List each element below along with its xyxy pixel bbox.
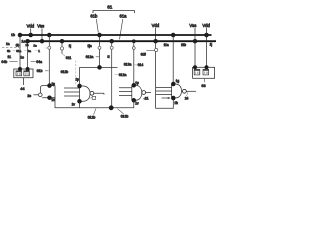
- node dot lower bus x42: [40, 39, 45, 44]
- wire drop x173.2 to gate G4: [172, 35, 174, 84]
- svg-text:-21: -21: [144, 97, 149, 101]
- node dot block62 left: [18, 67, 22, 71]
- tiny dash row2: [13, 50, 38, 52]
- node dot block63 left: [193, 65, 197, 69]
- gate G1 bubble: [39, 93, 43, 97]
- svg-text:613b: 613b: [121, 115, 129, 119]
- svg-text:1g: 1g: [176, 79, 180, 83]
- node dot lower bus x195: [193, 39, 198, 44]
- node dot upper bus x20: [18, 33, 23, 38]
- dashed boundary left: [2, 47, 20, 49]
- wire stub below block 62: [23, 78, 25, 85]
- wire drop x155.6 long to loop: [156, 41, 174, 108]
- contact circle on x99.5: [98, 46, 101, 49]
- gate G3 output: [146, 92, 151, 94]
- gate G4 inputs: [156, 88, 172, 95]
- svg-text:615: 615: [141, 52, 147, 56]
- gate G3 body: [132, 85, 142, 100]
- svg-text:Vdd: Vdd: [152, 23, 160, 28]
- gate G2 inputs: [64, 88, 80, 96]
- wire drop x49.3 to gate G1: [48, 35, 50, 86]
- bracket for 61: [93, 11, 135, 13]
- gate G1 top dot: [47, 83, 52, 88]
- leader 64a: [31, 61, 36, 63]
- leader 612b bottom: [94, 109, 97, 115]
- node dot upper bus x30.7: [28, 33, 33, 38]
- block 62 inner cell left stripe: [16, 71, 22, 72]
- arrowhead inside G4 loop: [168, 97, 170, 99]
- gate G3 inputs: [119, 88, 132, 96]
- gate G2 bottom dot: [77, 99, 82, 104]
- svg-text:1v: 1v: [72, 103, 76, 107]
- wire G2 bottom to rail: [79, 101, 81, 108]
- gate G1 body (mirrored): [40, 86, 55, 98]
- svg-text:1j: 1j: [69, 44, 72, 48]
- block 63 inner cell left marks: [196, 72, 199, 74]
- wire drop x195 right block: [194, 28, 196, 67]
- leader 614: [147, 50, 155, 52]
- svg-text:61b: 61b: [37, 69, 43, 73]
- svg-text:24: 24: [185, 96, 189, 100]
- leader 63: [204, 79, 206, 83]
- svg-text:(1): (1): [16, 43, 20, 47]
- leader 61b block: [45, 70, 49, 72]
- block 63 outline: [193, 67, 215, 78]
- svg-text:612a: 612a: [119, 73, 127, 77]
- leader 611: [62, 54, 65, 57]
- block 62 inner cell right stripe: [24, 71, 30, 72]
- svg-text:1p: 1p: [75, 77, 79, 81]
- dashed cell boundary x75.8: [75, 61, 77, 86]
- tick Vss left to lower bus: [41, 28, 43, 40]
- node dot upper bus x206.5: [204, 33, 209, 38]
- gate G4 top dot: [171, 82, 176, 87]
- leader 614 dash: [134, 64, 137, 66]
- block 63 inner cell left: [194, 69, 200, 75]
- svg-text:612b: 612b: [88, 115, 96, 119]
- node dot lower bus x62: [60, 39, 65, 44]
- svg-text:61: 61: [107, 4, 113, 9]
- svg-text:1a: 1a: [33, 43, 37, 47]
- svg-text:1c: 1c: [20, 56, 24, 60]
- svg-text:614: 614: [138, 63, 144, 67]
- node dot upper bus x173.2: [171, 33, 176, 38]
- svg-text:44: 44: [20, 86, 25, 91]
- bus 61a lower: [28, 40, 216, 42]
- svg-text:Vss: Vss: [37, 24, 44, 29]
- gate G2 output: [94, 93, 104, 94]
- wire drop x111.7 to bottom rail: [111, 41, 113, 108]
- svg-text:1b: 1b: [11, 33, 15, 37]
- block 62 inner cell right marks: [25, 73, 28, 75]
- gate G2 top dot: [77, 84, 82, 89]
- tiny dash left of x49 contact: [45, 47, 48, 49]
- svg-text:11: 11: [7, 55, 11, 59]
- contact circle on x49.3: [48, 46, 51, 49]
- leader 64b: [9, 61, 17, 63]
- svg-text:2e: 2e: [27, 94, 31, 98]
- svg-text:1ja: 1ja: [87, 44, 91, 48]
- svg-text:1p: 1p: [135, 81, 139, 85]
- wire drop x206.5 right block: [206, 28, 208, 67]
- leader from 61a to lower bus: [120, 19, 123, 39]
- svg-text:61a: 61a: [120, 14, 128, 19]
- wire bottom rail: [50, 98, 134, 108]
- svg-text:63: 63: [201, 84, 205, 88]
- gate G3 bottom dot: [132, 98, 137, 103]
- squiggle leader G2 square: [90, 97, 92, 100]
- svg-text:6b: 6b: [7, 49, 11, 53]
- wire G3 bottom to rail: [133, 100, 135, 108]
- contact circle on x62: [60, 47, 63, 50]
- svg-text:1j: 1j: [210, 43, 213, 47]
- svg-text:61a: 61a: [16, 49, 21, 53]
- node dot lower bus x133.8: [132, 39, 136, 43]
- block 62 inner cell left: [16, 71, 22, 76]
- gate G4 bubble: [183, 89, 187, 93]
- contact circle on x155.6: [155, 48, 158, 51]
- node dot lower bus x155.6: [153, 39, 158, 44]
- node dot lower bus x27.6: [25, 39, 30, 44]
- svg-text:64b: 64b: [1, 60, 7, 64]
- leader 613b bottom: [118, 109, 124, 114]
- bus 61b upper: [20, 34, 212, 36]
- arrow inside G4 loop: [162, 97, 171, 99]
- gate G4 body: [172, 84, 182, 98]
- block 62 inner cell left marks: [17, 73, 20, 75]
- svg-text:11a: 11a: [164, 43, 169, 47]
- svg-text:611: 611: [66, 56, 72, 60]
- contact square G2: [92, 96, 95, 99]
- gate G3 bubble: [142, 91, 146, 95]
- wire drop x99.5 with jog to gate G2: [80, 35, 118, 86]
- gate G1 bottom dot: [47, 95, 52, 100]
- node dot lower bus x111.7: [109, 39, 114, 44]
- gate G3 top dot: [132, 83, 137, 88]
- svg-text:1j: 1j: [107, 54, 110, 58]
- node dot upper bus x99.5: [97, 33, 102, 38]
- block 63 inner cell left stripe: [194, 69, 200, 70]
- wire left drop x20: [19, 35, 21, 69]
- block 62 inner cell right: [24, 71, 30, 76]
- gate G4 bottom dot: [171, 96, 176, 101]
- svg-text:Vdd: Vdd: [202, 23, 210, 28]
- contact circle on x111.7: [110, 46, 113, 49]
- leader from 61b to upper bus: [96, 19, 98, 33]
- svg-text:11b: 11b: [181, 43, 186, 47]
- tick Vdd middle to lower bus: [155, 28, 157, 41]
- node dot bottom rail: [109, 105, 114, 110]
- gate G2 bubble: [90, 91, 94, 95]
- svg-text:61b: 61b: [90, 14, 98, 19]
- node dot corner 99.5,69: [97, 65, 102, 70]
- gate G1 output lead: [33, 94, 38, 96]
- svg-text:1: 1: [38, 49, 40, 53]
- svg-text:1h: 1h: [174, 101, 178, 105]
- leader 612a second: [114, 73, 118, 75]
- svg-text:6a: 6a: [28, 49, 32, 53]
- svg-text:1v: 1v: [51, 98, 55, 102]
- block 63 inner cell right: [203, 69, 209, 75]
- svg-text:613a: 613a: [124, 63, 132, 67]
- svg-text:Vss: Vss: [189, 23, 196, 28]
- gate G2 body: [80, 86, 91, 101]
- block 63 inner cell right stripe: [203, 69, 209, 70]
- node dot block63 right: [205, 65, 209, 69]
- svg-text:1a: 1a: [6, 42, 10, 46]
- node dot upper bus x49.3: [47, 33, 52, 38]
- leader 24 G4: [187, 92, 189, 96]
- svg-text:1p: 1p: [51, 82, 55, 86]
- node dot block62 right: [26, 67, 30, 71]
- leader 612a: [96, 56, 100, 58]
- svg-text:612b: 612b: [61, 70, 69, 74]
- svg-text:Vdd: Vdd: [27, 24, 35, 29]
- svg-text:612a: 612a: [86, 55, 94, 59]
- block 63 inner cell right marks: [204, 72, 207, 74]
- wire stub x62: [61, 41, 63, 53]
- wire left drop x27.6: [27, 41, 29, 69]
- svg-text:64a: 64a: [36, 60, 42, 64]
- tick Vdd left to upper bus: [30, 28, 32, 34]
- contact circle on x133.8: [132, 47, 135, 50]
- block 62 outline: [14, 69, 33, 78]
- gate G4 output: [186, 90, 196, 92]
- svg-text:1v: 1v: [135, 101, 139, 105]
- wire drop x133.8 to gate G3: [133, 41, 135, 85]
